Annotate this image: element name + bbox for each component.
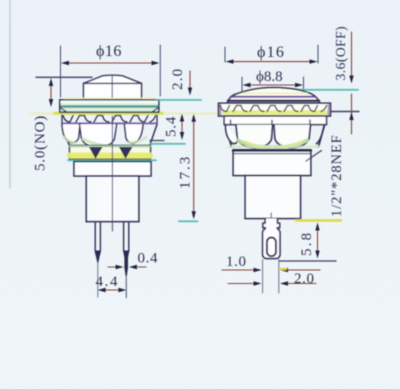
hex band green top edge bbox=[70, 145, 150, 147]
svg-text:17.3: 17.3 bbox=[178, 155, 194, 189]
svg-text:1.0: 1.0 bbox=[226, 254, 247, 270]
yellow extension seg at body bottom right bbox=[296, 219, 341, 222]
dim phi8.8: extension lines bbox=[241, 77, 243, 94]
dome cap (right view) bbox=[227, 88, 320, 103]
teal line at dome apex level bbox=[284, 89, 358, 91]
hex band yellow fill bbox=[70, 153, 150, 159]
cap top extension line (left) bbox=[36, 76, 92, 78]
teal extension line at arcs bottom bbox=[150, 143, 185, 145]
ring band purple end tints bbox=[221, 105, 329, 115]
button cap (left view) bbox=[84, 75, 142, 99]
collar top dark edge bbox=[233, 150, 311, 152]
dim 4.4 line bbox=[98, 288, 127, 292]
body (left view) bbox=[86, 176, 139, 222]
purple line under teeth bbox=[62, 122, 157, 124]
cap centerline bbox=[111, 75, 113, 98]
teal line under hex bbox=[68, 159, 156, 161]
svg-text:5.0(NO): 5.0(NO) bbox=[33, 115, 49, 171]
dim 1.0/2.0 arrows row 2 bbox=[228, 281, 316, 285]
green tint at left arc bottoms bbox=[83, 139, 113, 146]
dim 3.6: lower arrow bbox=[349, 94, 353, 134]
svg-text:0.4: 0.4 bbox=[138, 251, 159, 267]
band 2 (right view) bbox=[224, 116, 326, 125]
ring band yellow fill bbox=[224, 110, 326, 115]
dim 2.0: vertical arrow bbox=[188, 71, 192, 96]
flange chamfer corners bbox=[60, 108, 158, 113]
green tint at arc bottoms bbox=[238, 141, 270, 148]
terminal oval hole bbox=[267, 238, 276, 257]
dim phi16 right: dimension line bbox=[226, 59, 318, 63]
pin right bbox=[124, 222, 129, 277]
svg-text:3.6(OFF): 3.6(OFF) bbox=[333, 26, 348, 81]
dim 5.0(NO): vertical dimension line bbox=[49, 78, 53, 107]
dim phi16 left: extension tick right bbox=[159, 45, 161, 96]
petal arcs section (left view) bbox=[62, 125, 157, 148]
bushing rect (left view) bbox=[74, 162, 151, 177]
hex nut band (left view) bbox=[70, 146, 151, 160]
teal extension line at body bottom bbox=[179, 220, 198, 222]
terminal centerline bbox=[270, 213, 272, 239]
svg-text:2.0: 2.0 bbox=[170, 68, 186, 90]
dim 17.3: vertical line bbox=[192, 114, 196, 220]
pin right extension line bbox=[125, 277, 127, 297]
flange inner dark teal line bbox=[62, 105, 158, 107]
big arcs (right view) bbox=[226, 125, 325, 148]
flange top pale yellow fringe bbox=[64, 97, 155, 99]
flange (left view) bbox=[60, 100, 159, 112]
svg-text:4.4: 4.4 bbox=[96, 274, 120, 290]
collar (right view) bbox=[233, 150, 311, 176]
svg-text:2.0: 2.0 bbox=[294, 271, 315, 287]
dim 3.6: upper arrow bbox=[349, 32, 353, 84]
dim phi8.8: dimension line bbox=[243, 83, 304, 87]
svg-text:5.4: 5.4 bbox=[164, 116, 180, 137]
collar second line bbox=[234, 153, 310, 155]
navy extension line at ring top level bbox=[331, 111, 360, 113]
svg-text:1/2"*28NEF: 1/2"*28NEF bbox=[329, 134, 345, 217]
pin left extension line bbox=[97, 263, 99, 297]
cap shoulder line bbox=[84, 82, 142, 84]
leader line to thread bbox=[306, 151, 322, 162]
locking teeth band (left view) bbox=[62, 115, 157, 123]
svg-text:ϕ16: ϕ16 bbox=[257, 44, 285, 61]
threaded bushing (right view) bbox=[245, 176, 300, 219]
dim phi16 right: extension ticks bbox=[224, 47, 226, 62]
svg-text:5.8: 5.8 bbox=[299, 231, 315, 256]
faint left margin line bbox=[9, 0, 11, 188]
dim 5.8: vertical line bbox=[315, 223, 319, 259]
teal extension line at flange top right bbox=[156, 99, 201, 101]
navy extension line at lug bottom bbox=[280, 260, 337, 262]
svg-text:ϕ8.8: ϕ8.8 bbox=[256, 69, 283, 85]
terminal extension lines bbox=[262, 260, 264, 294]
svg-text:ϕ16: ϕ16 bbox=[96, 43, 122, 60]
flange top white strip bbox=[62, 101, 158, 103]
pin left bbox=[95, 222, 100, 263]
dim 1.0/2.0 arrows row 1 bbox=[222, 268, 320, 272]
band 2 ticks bbox=[231, 120, 311, 125]
dome navy band bbox=[228, 99, 319, 101]
dim 0.4 arrows bbox=[108, 265, 146, 269]
body centerline bbox=[111, 116, 113, 231]
hex V mark 2 bbox=[119, 147, 133, 159]
dim 4.4 extension line right bbox=[125, 278, 127, 298]
hex V mark 1 bbox=[89, 147, 103, 159]
ring band teeth bbox=[220, 106, 327, 112]
navy arc-bottom extension line right bbox=[150, 140, 164, 142]
terminal lug bbox=[263, 219, 280, 259]
dome apex yellow tint bbox=[243, 92, 307, 94]
dim 5.4: vertical line bbox=[180, 114, 184, 141]
dim phi16 left: dimension line bbox=[61, 61, 160, 65]
dim phi16 left: extension tick left bbox=[60, 46, 62, 97]
cap dome purple tinge bbox=[87, 76, 102, 82]
dome purple band bbox=[231, 96, 315, 98]
yellow scan line (main, full width) bbox=[30, 112, 218, 115]
ring band (right view) bbox=[219, 103, 331, 116]
